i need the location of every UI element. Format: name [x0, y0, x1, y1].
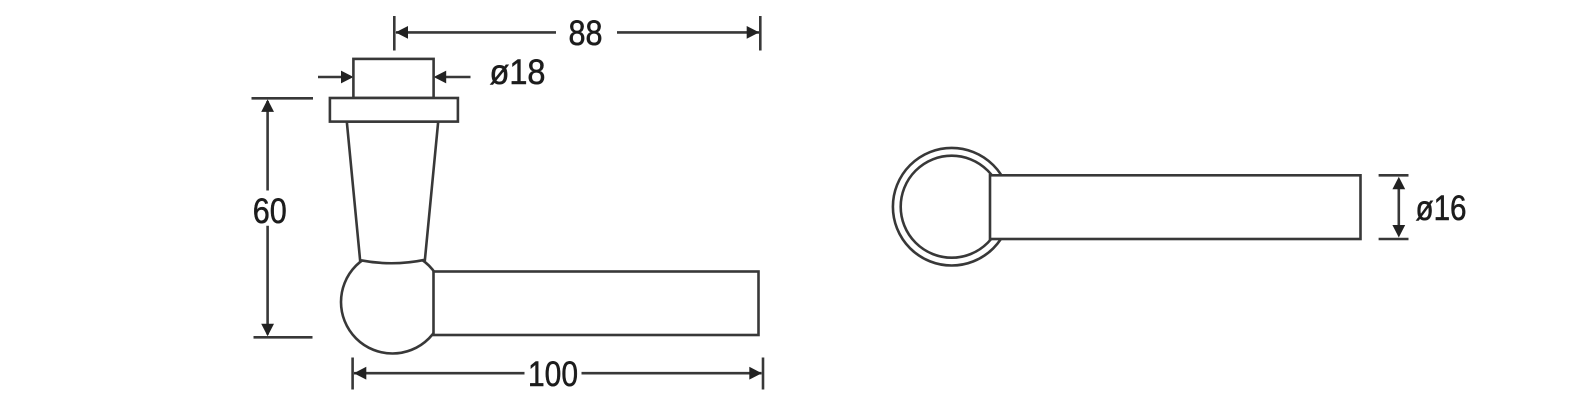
svg-text:ø18: ø18 — [490, 53, 546, 92]
lever grip bar (plan view) — [990, 175, 1361, 239]
dimension o16: top tick — [1379, 174, 1409, 177]
dimension 60: line upper segment — [266, 101, 269, 191]
dimension o16: vertical line — [1398, 186, 1401, 228]
dimension 88: right tick — [759, 16, 762, 51]
dimension o16: top arrowhead — [1392, 177, 1405, 190]
dimension 60: line lower segment — [266, 226, 269, 335]
dimension 60: bottom arrowhead — [261, 324, 274, 337]
dimension 88: line left segment — [396, 31, 556, 34]
svg-text:60: 60 — [253, 192, 287, 231]
rose flange — [330, 98, 458, 122]
lever grip bar (side view) — [434, 272, 759, 336]
dimension o18: left arrow line — [318, 76, 344, 79]
dimension o18: right arrow line — [444, 76, 471, 79]
dimension 100: right tick — [762, 358, 765, 390]
svg-text:88: 88 — [569, 14, 603, 53]
dimension 100: left arrowhead — [354, 367, 367, 380]
dimension 100: left tick — [351, 358, 354, 390]
dimension 88: left arrowhead — [396, 26, 409, 39]
dimension 100: right arrowhead — [749, 367, 762, 380]
handle neck cone — [347, 122, 438, 264]
rose outer circle (plan view) — [893, 148, 1011, 266]
dimension 88: right arrowhead — [747, 26, 760, 39]
dimension 60: bottom extension line — [254, 336, 313, 339]
dimension 60: top extension line — [252, 97, 314, 100]
dimension 88: left extension tick — [393, 16, 396, 51]
svg-text:100: 100 — [528, 355, 578, 394]
dimension o16: bottom arrowhead — [1392, 225, 1405, 238]
spindle cap — [353, 59, 433, 98]
dimension 100: line left segment — [354, 372, 525, 375]
dimension o16: bottom tick — [1379, 238, 1409, 241]
dimension 88: line right segment — [617, 31, 759, 34]
dimension 100: line right segment — [582, 372, 762, 375]
dimension o18: left arrowhead — [341, 71, 354, 84]
svg-text:ø16: ø16 — [1416, 189, 1467, 228]
dimension 60: top arrowhead — [261, 99, 274, 112]
handle neck ball — [341, 251, 444, 354]
rose inner circle (plan view) — [901, 156, 1003, 258]
dimension o18: right arrowhead — [434, 71, 447, 84]
